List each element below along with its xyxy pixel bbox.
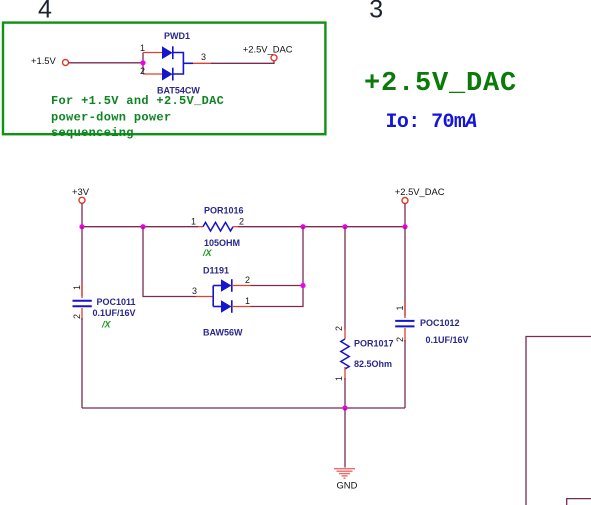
wire D1191 pin3 rail [143, 227, 196, 297]
svg-text:Io: 70mA: Io: 70mA [386, 111, 477, 134]
svg-text:1: 1 [395, 305, 405, 310]
pin stub PWD1 pin 2 [143, 73, 162, 75]
svg-text:82.5Ohm: 82.5Ohm [354, 359, 392, 369]
svg-text:+2.5V_DAC: +2.5V_DAC [395, 186, 445, 197]
wire bottom bus [82, 407, 405, 409]
svg-text:3: 3 [369, 0, 383, 24]
pin stub D1191 pin 2 [232, 285, 251, 287]
svg-text:+2.5V_DAC: +2.5V_DAC [364, 69, 517, 99]
hierarchical block outline (clipped right) [526, 337, 591, 505]
svg-text:POR1017: POR1017 [354, 339, 394, 349]
pin stub D1191 pin 3 [196, 296, 213, 298]
svg-text:3: 3 [201, 52, 206, 62]
diode PWD1 BAT54CW [162, 46, 193, 80]
wire pin3 to +2.5V_DAC terminal [211, 61, 274, 63]
svg-text:1: 1 [245, 296, 250, 306]
svg-text:+1.5V: +1.5V [31, 55, 57, 66]
wire D1191 pin2 to rail [251, 285, 304, 287]
note text power sequencing [51, 94, 224, 140]
diode D1191 BAW56W [213, 279, 232, 313]
wire D1191 pin1 to rail [251, 286, 304, 307]
junction +2.5V_DAC bus [402, 224, 407, 229]
svg-text:/X: /X [202, 248, 213, 258]
svg-text:BAW56W: BAW56W [203, 328, 243, 338]
wire top bus right [238, 226, 405, 228]
svg-text:1: 1 [191, 217, 196, 227]
svg-text:1: 1 [334, 376, 344, 381]
power terminal +1.5V [31, 55, 69, 66]
svg-text:sequenceing: sequenceing [51, 126, 134, 140]
svg-text:105OHM: 105OHM [204, 238, 240, 248]
svg-text:0.1UF/16V: 0.1UF/16V [426, 335, 469, 345]
svg-text:POC1011: POC1011 [97, 297, 136, 307]
svg-text:power-down power: power-down power [51, 110, 172, 124]
resistor POR1016 [198, 222, 238, 231]
pin stub PWD1 pin 3 [193, 62, 211, 64]
junction +3V bus [79, 224, 84, 229]
junction D1191 pin3 rail [140, 224, 145, 229]
svg-text:1: 1 [72, 285, 82, 290]
junction GND [342, 405, 347, 410]
svg-text:POR1016: POR1016 [204, 206, 244, 216]
svg-text:PWD1: PWD1 [164, 31, 190, 41]
wire +3V drop [81, 203, 83, 226]
svg-text:2: 2 [140, 66, 145, 76]
svg-text:+3V: +3V [72, 186, 90, 197]
svg-text:1: 1 [140, 43, 145, 53]
junction cathode mid [300, 283, 305, 288]
junction POR1017 rail [342, 224, 347, 229]
svg-text:For +1.5V and +2.5V_DAC: For +1.5V and +2.5V_DAC [51, 94, 224, 108]
inner block corner (clipped) [567, 499, 591, 505]
svg-text:2: 2 [395, 337, 405, 342]
svg-text:4: 4 [38, 0, 52, 24]
svg-text:0.1UF/16V: 0.1UF/16V [93, 308, 136, 318]
svg-text:D1191: D1191 [203, 266, 229, 276]
junction node [140, 60, 145, 65]
wire +2.5V_DAC drop [404, 204, 406, 227]
capacitor POC1011 [73, 227, 92, 408]
wire +1.5V to node [69, 62, 144, 64]
wire GND stem [344, 408, 346, 468]
power terminal +2.5V_DAC (main) [395, 186, 445, 204]
svg-text:2: 2 [334, 326, 344, 331]
green annotation box [3, 23, 325, 135]
svg-text:2: 2 [245, 275, 250, 285]
svg-text:3: 3 [192, 286, 197, 296]
svg-text:2: 2 [239, 217, 244, 227]
power terminal +3V [72, 186, 90, 204]
capacitor POC1012 [395, 227, 414, 408]
svg-text:+2.5V_DAC: +2.5V_DAC [243, 43, 293, 54]
power terminal +2.5V_DAC (box) [243, 43, 293, 60]
pin stub PWD1 pin 1 [143, 52, 162, 54]
wire node vertical [142, 53, 144, 75]
junction cathode rail [300, 224, 305, 229]
svg-text:/X: /X [101, 320, 112, 330]
ground symbol [334, 469, 355, 479]
pin stub D1191 pin 1 [232, 306, 251, 308]
svg-text:2: 2 [72, 314, 82, 319]
wire cathode rail up [302, 227, 304, 286]
svg-text:GND: GND [337, 480, 358, 491]
svg-text:POC1012: POC1012 [420, 318, 460, 328]
wire top bus left [82, 226, 198, 228]
resistor POR1017 [341, 227, 349, 408]
